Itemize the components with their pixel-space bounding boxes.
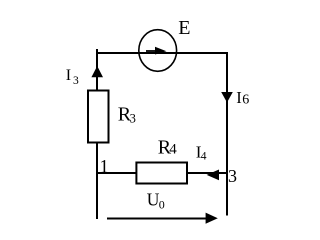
svg-text:3: 3 [73,75,79,87]
svg-text:3: 3 [228,166,237,186]
wire left vertical branch (through R3) [96,53,98,219]
wire node1 horizontal to node3 [96,172,227,174]
svg-text:4: 4 [169,142,177,158]
svg-text:4: 4 [201,151,207,163]
svg-text:I: I [236,88,242,107]
resistor R3 [88,91,109,143]
source E internal arrow [146,47,167,55]
svg-text:0: 0 [159,197,165,211]
arrow I3 (current up) [91,66,103,77]
source E (EMF source circle) [139,30,177,72]
svg-text:E: E [178,17,190,39]
wire left vertical overshoot tick at top-left corner [96,49,98,53]
wire top horizontal from node above R3 to right branch [96,52,228,54]
svg-text:3: 3 [130,112,136,126]
arrow U0 (voltage, right) [107,213,218,224]
svg-text:1: 1 [100,158,109,178]
wire right vertical branch [226,53,228,216]
svg-text:6: 6 [242,93,249,108]
arrow I6 (current down) [221,92,233,103]
arrow I4 (current left) [207,170,219,181]
resistor R4 [136,163,187,184]
svg-text:I: I [66,67,71,84]
